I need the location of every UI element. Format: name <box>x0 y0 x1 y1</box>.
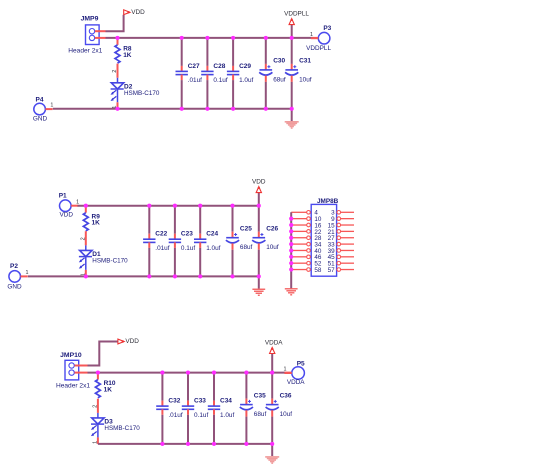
polarized capacitor C31 10uf <box>285 38 312 109</box>
svg-text:VDDA: VDDA <box>265 340 283 347</box>
junction bus y=250.46 <box>289 248 293 252</box>
polarized capacitor C25 68uf <box>226 206 253 277</box>
junction bottom rail x=246.4 <box>244 442 248 446</box>
svg-text:HSMB-C170: HSMB-C170 <box>92 258 128 265</box>
svg-text:P5: P5 <box>297 360 305 367</box>
svg-text:C35: C35 <box>254 392 266 399</box>
junction bus y=237.74 <box>289 236 293 240</box>
svg-text:1: 1 <box>76 199 79 205</box>
junction top rail x=246.4 <box>244 371 248 375</box>
svg-text:Header 2x1: Header 2x1 <box>68 48 102 55</box>
svg-text:HSMB-C170: HSMB-C170 <box>124 90 160 97</box>
svg-text:C36: C36 <box>280 392 292 399</box>
svg-text:VDDPLL: VDDPLL <box>306 45 331 52</box>
svg-text:C30: C30 <box>273 58 285 65</box>
junction bus y=218.66 <box>289 217 293 221</box>
power symbol VDD (arrow right) <box>124 9 145 16</box>
svg-text:58: 58 <box>314 267 322 274</box>
junction bottom rail x=149.3 <box>147 274 151 278</box>
wire JMP10 pin1 to VDD <box>88 342 118 366</box>
svg-text:1: 1 <box>93 441 99 444</box>
port P5 (VDDA) <box>284 360 306 386</box>
wire top rail stub to P3 <box>314 37 319 39</box>
connector JMP9 (Header 2x1) <box>68 16 105 55</box>
polarized capacitor C26 10uf <box>252 206 279 277</box>
junction bottom rail ground <box>257 274 261 278</box>
svg-text:C29: C29 <box>239 63 251 70</box>
junction bus y=225.02 <box>289 223 293 227</box>
svg-text:JMP8B: JMP8B <box>317 198 339 205</box>
wire GND bottom rail (top section) <box>53 108 292 110</box>
port P4 (GND) <box>33 97 54 123</box>
svg-text:1.0uf: 1.0uf <box>220 412 234 419</box>
svg-text:P4: P4 <box>36 97 44 104</box>
svg-text:P2: P2 <box>10 263 18 270</box>
junction bottom rail ground <box>290 107 294 111</box>
junction top rail x=214.0 <box>212 371 216 375</box>
capacitor C29 1.0uf <box>227 38 254 109</box>
svg-text:1: 1 <box>310 32 313 38</box>
svg-text:VDD: VDD <box>60 211 74 218</box>
resistor R10 1K <box>95 373 115 398</box>
junction bottom rail x=181.7 <box>180 107 184 111</box>
wire GND bottom rail (bottom section) <box>98 443 272 445</box>
wire VDD top rail <box>78 205 259 207</box>
svg-text:0.1uf: 0.1uf <box>181 245 195 252</box>
svg-text:JMP10: JMP10 <box>60 352 82 359</box>
svg-text:VDDPLL: VDDPLL <box>284 11 309 18</box>
polarized capacitor C36 10uf <box>266 373 293 444</box>
junction bottom rail x=188.0 <box>186 442 190 446</box>
junction top rail x=117.5 <box>115 36 119 40</box>
junction top rail x=97.9 <box>96 371 100 375</box>
ground (earth bars) <box>252 289 265 296</box>
svg-text:0.1uf: 0.1uf <box>213 77 227 84</box>
junction top rail x=174.9 <box>173 204 177 208</box>
svg-text:C33: C33 <box>194 398 206 405</box>
junction bottom rail x=200.2 <box>198 274 202 278</box>
junction top rail x=181.7 <box>180 36 184 40</box>
junction bus y=244.1 <box>289 242 293 246</box>
polarized capacitor C30 68uf <box>259 38 286 109</box>
svg-text:1: 1 <box>284 367 287 373</box>
junction top rail x=272.2 <box>270 371 274 375</box>
junction bottom rail x=207.4 <box>205 107 209 111</box>
svg-text:1K: 1K <box>123 52 132 59</box>
svg-text:1.0uf: 1.0uf <box>206 245 220 252</box>
wire ground stem <box>271 444 273 456</box>
svg-text:VDDA: VDDA <box>287 379 305 386</box>
junction bottom rail x=233.1 <box>231 107 235 111</box>
svg-text:2: 2 <box>112 70 118 73</box>
capacitor C28 0.1uf <box>201 38 228 109</box>
wire top rail stub to P5 <box>285 372 292 374</box>
LED D3 HSMB-C170 <box>91 399 140 444</box>
wire VDDA top rail <box>88 372 286 374</box>
ground (power ground triangle) <box>265 456 279 464</box>
svg-text:C22: C22 <box>155 231 167 238</box>
junction bottom rail x=85.8 <box>84 274 88 278</box>
junction top rail x=291.7 <box>290 36 294 40</box>
svg-text:.01uf: .01uf <box>168 412 182 419</box>
svg-text:.01uf: .01uf <box>188 77 202 84</box>
svg-text:JMP9: JMP9 <box>81 16 99 23</box>
svg-text:VDD: VDD <box>125 338 139 345</box>
wire VDDPLL power stem <box>291 25 293 38</box>
capacitor C23 0.1uf <box>169 206 196 277</box>
resistor R8 1K <box>115 38 132 63</box>
svg-text:C24: C24 <box>206 231 218 238</box>
svg-text:VDD: VDD <box>252 179 266 186</box>
polarized capacitor C35 68uf <box>240 373 267 444</box>
wire JMP8B ground bus <box>290 212 292 288</box>
svg-text:1.0uf: 1.0uf <box>239 77 253 84</box>
connector JMP8B <box>291 198 354 276</box>
svg-text:GND: GND <box>7 283 22 290</box>
connector JMP10 (Header 2x1) <box>56 352 90 389</box>
junction bottom rail x=162.4 <box>160 442 164 446</box>
svg-text:10uf: 10uf <box>299 76 312 83</box>
svg-text:C32: C32 <box>168 398 180 405</box>
svg-text:P3: P3 <box>323 25 331 32</box>
capacitor C22 .01uf <box>143 206 170 277</box>
junction bottom rail x=265.8 <box>264 107 268 111</box>
svg-text:C23: C23 <box>181 231 193 238</box>
junction top rail x=188.0 <box>186 371 190 375</box>
svg-text:P1: P1 <box>59 192 67 199</box>
port P1 (VDD) <box>59 192 79 218</box>
junction top rail x=85.8 <box>84 204 88 208</box>
svg-text:68uf: 68uf <box>254 411 267 418</box>
svg-text:2: 2 <box>80 237 86 240</box>
wire VDDPLL top rail <box>106 37 314 39</box>
power symbol VDD (arrow up) <box>252 179 266 193</box>
svg-text:HSMB-C170: HSMB-C170 <box>104 425 140 432</box>
wire JMP9 pin1 to VDD <box>106 15 124 32</box>
svg-text:0.1uf: 0.1uf <box>194 412 208 419</box>
svg-text:1K: 1K <box>104 387 113 394</box>
junction bus y=269.54 <box>289 267 293 271</box>
port P2 (GND) <box>7 263 28 290</box>
svg-text:2: 2 <box>93 405 99 408</box>
junction bottom rail x=214.0 <box>212 442 216 446</box>
LED D2 HSMB-C170 <box>111 64 160 109</box>
junction bottom rail ground <box>270 442 274 446</box>
junction top rail x=258.8 <box>257 204 261 208</box>
junction bottom rail x=174.9 <box>173 274 177 278</box>
capacitor C33 0.1uf <box>182 373 209 444</box>
svg-text:C31: C31 <box>299 58 311 65</box>
power symbol VDDA (arrow up) <box>265 340 283 354</box>
capacitor C24 1.0uf <box>194 206 221 277</box>
LED D1 HSMB-C170 <box>79 231 128 276</box>
svg-text:68uf: 68uf <box>240 244 253 251</box>
wire ground stem <box>291 109 293 121</box>
svg-text:1K: 1K <box>92 220 101 227</box>
capacitor C34 1.0uf <box>208 373 235 444</box>
capacitor C27 .01uf <box>176 38 203 109</box>
junction top rail x=200.2 <box>198 204 202 208</box>
junction top rail x=207.4 <box>205 36 209 40</box>
svg-text:57: 57 <box>328 267 336 274</box>
ground (earth bars) <box>285 288 298 295</box>
port P3 (VDDPLL) <box>306 25 331 52</box>
wire VDDA power stem <box>271 354 273 373</box>
junction top rail x=232.5 <box>230 204 234 208</box>
svg-text:VDD: VDD <box>131 9 145 16</box>
wire VDD power stem <box>258 193 260 206</box>
wire GND bottom rail (middle section) <box>28 275 259 277</box>
svg-text:10uf: 10uf <box>280 411 293 418</box>
junction bottom rail x=117.5 <box>115 107 119 111</box>
junction top rail x=265.8 <box>264 36 268 40</box>
ground (power ground triangle) <box>285 121 299 129</box>
svg-text:1: 1 <box>50 103 53 109</box>
power symbol VDD (arrow right, bottom) <box>118 338 139 345</box>
junction bottom rail x=232.5 <box>230 274 234 278</box>
svg-text:C28: C28 <box>213 63 225 70</box>
svg-text:Header 2x1: Header 2x1 <box>56 383 90 390</box>
wire ground stem <box>258 276 260 288</box>
junction bus y=256.82 <box>289 255 293 259</box>
svg-text:68uf: 68uf <box>273 76 286 83</box>
svg-text:C27: C27 <box>188 63 200 70</box>
junction top rail x=162.4 <box>160 371 164 375</box>
svg-text:GND: GND <box>33 116 48 123</box>
power symbol VDDPLL (arrow up) <box>284 11 309 25</box>
svg-text:C26: C26 <box>266 225 278 232</box>
junction top rail x=149.3 <box>147 204 151 208</box>
svg-text:C25: C25 <box>240 225 252 232</box>
svg-text:.01uf: .01uf <box>155 245 169 252</box>
capacitor C32 .01uf <box>156 373 183 444</box>
junction bus y=231.38 <box>289 229 293 233</box>
svg-text:1: 1 <box>26 270 29 276</box>
resistor R9 1K <box>83 206 100 231</box>
junction bus y=263.18 <box>289 261 293 265</box>
svg-text:C34: C34 <box>220 398 232 405</box>
junction top rail x=233.1 <box>231 36 235 40</box>
svg-text:10uf: 10uf <box>266 244 279 251</box>
